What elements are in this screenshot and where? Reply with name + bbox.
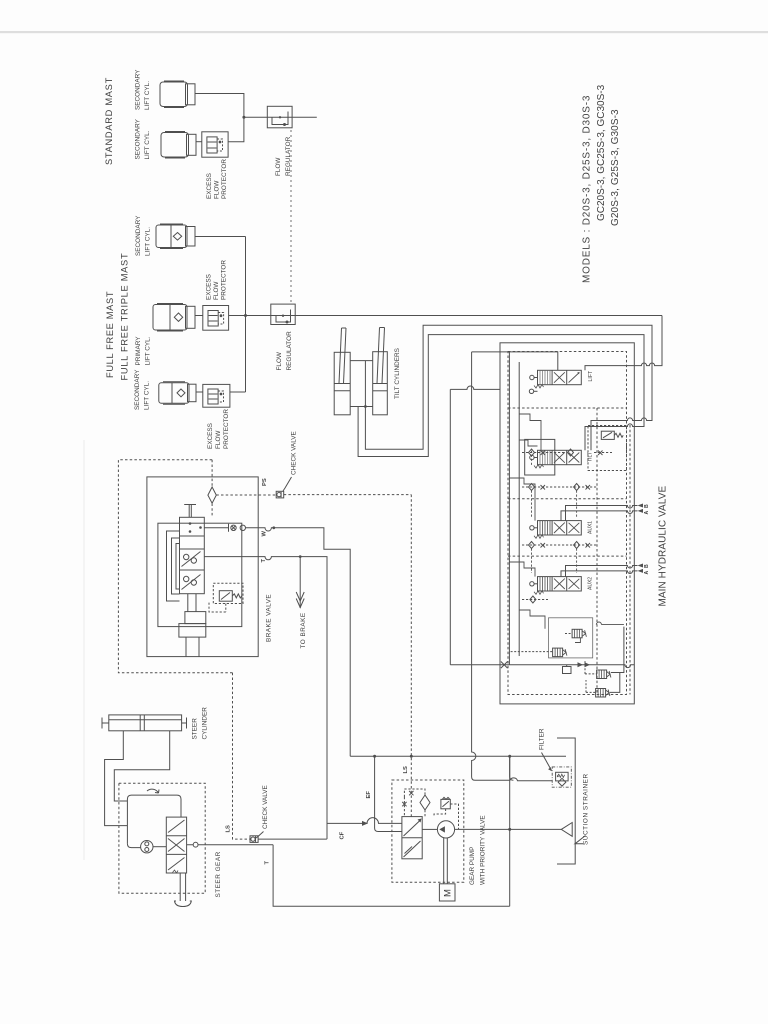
- wire vertical secondary/protector junction: [245, 237, 247, 393]
- svg-text:SUCTION STRAINER: SUCTION STRAINER: [583, 773, 590, 845]
- page scan edge band: [0, 31, 768, 33]
- svg-text:STEER: STEER: [192, 718, 199, 740]
- dashed option link flow regulators: [290, 130, 292, 303]
- node junction standard mast: [242, 116, 245, 119]
- priority valve: [402, 817, 422, 859]
- excess flow protector 3 box: [203, 384, 230, 407]
- svg-text:EXCESS: EXCESS: [206, 173, 213, 199]
- wire steer cylinder line a: [105, 731, 128, 826]
- svg-text:GEAR PUMP: GEAR PUMP: [469, 847, 476, 885]
- svg-text:A: A: [644, 511, 650, 515]
- junction cross mark: [501, 662, 508, 669]
- main valve P trunk: [508, 352, 510, 665]
- pump check diamond: [420, 795, 430, 810]
- svg-text:EXCESS: EXCESS: [206, 274, 213, 300]
- cylinder secondary lift cyl 1 (standard mast): [160, 81, 195, 108]
- brake pilot dashed enclosure: [118, 460, 232, 673]
- svg-text:LIFT CYL.: LIFT CYL.: [144, 81, 151, 110]
- svg-text:LIFT CYL.: LIFT CYL.: [144, 381, 151, 410]
- svg-text:PROTECTOR: PROTECTOR: [223, 409, 230, 449]
- labels A B upper: [644, 504, 650, 515]
- leader suction strainer: [575, 836, 586, 844]
- tilt section enclosure: [525, 439, 555, 475]
- tank bracket: [557, 738, 575, 864]
- leader filter: [542, 753, 552, 771]
- svg-text:SECONDARY: SECONDARY: [135, 215, 142, 256]
- brake T port line: [204, 557, 327, 840]
- wire P feed top: [472, 352, 558, 370]
- wire 3 tilt line b: [358, 335, 644, 457]
- cylinder secondary lift cyl (full free upper): [156, 224, 195, 249]
- svg-text:FLOW: FLOW: [276, 351, 283, 370]
- check symbol row 2: [529, 484, 591, 491]
- motor box M: [439, 884, 455, 901]
- cylinder secondary lift cyl (full free lower): [159, 382, 196, 405]
- svg-text:BRAKE VALVE: BRAKE VALVE: [266, 594, 273, 642]
- svg-text:A: A: [644, 571, 650, 575]
- check valve (steer): [250, 836, 258, 843]
- relief valve d: [586, 673, 620, 698]
- label secondary lift cyl (full free lower): [134, 369, 151, 410]
- spool feed steps: [509, 414, 545, 629]
- PS pilot dashed line: [216, 494, 276, 496]
- label excess flow protector 3: [207, 409, 230, 449]
- pump shaft: [444, 838, 448, 884]
- spool valve AUX2: [530, 577, 582, 595]
- node tilt riser junction: [364, 405, 367, 408]
- svg-text:LIFT: LIFT: [588, 370, 594, 381]
- dashed separator 1: [508, 407, 627, 409]
- wire cyl1 to junction: [195, 94, 244, 142]
- label primary lift cyl: [135, 336, 152, 366]
- dashed vertical pilot b: [629, 425, 631, 695]
- svg-text:FLOW: FLOW: [214, 180, 221, 199]
- dashed vertical pilot a: [596, 408, 598, 695]
- svg-text:LS: LS: [403, 766, 409, 774]
- svg-text:AUX1: AUX1: [588, 521, 594, 534]
- wire 2 tilt line a: [365, 325, 652, 450]
- svg-text:B: B: [644, 564, 650, 568]
- svg-text:GC20S-3, GC25S-3, GC30S-3: GC20S-3, GC25S-3, GC30S-3: [596, 84, 607, 221]
- svg-text:LS: LS: [226, 825, 232, 833]
- pilot dashes priority: [404, 789, 458, 829]
- wire left vertical b (EF return): [472, 352, 553, 781]
- CF arrow: [362, 821, 368, 826]
- bottom distribution line: [450, 662, 634, 673]
- label gear pump: [469, 815, 487, 885]
- check symbol row 1: [529, 449, 603, 456]
- steer rotary arrow: [147, 789, 159, 793]
- steer gear dashed box: [119, 783, 205, 893]
- check symbol row 4: [530, 596, 536, 603]
- steer T line: [187, 842, 510, 906]
- label excess flow protector 1: [206, 159, 228, 199]
- label secondary lift cyl 1: [135, 69, 152, 110]
- excess flow protector 1 box: [202, 132, 228, 157]
- dashed row lines check symbols: [522, 449, 612, 600]
- flow regulator 2 box: [271, 304, 295, 324]
- orifice x marks: [402, 791, 413, 806]
- svg-text:T: T: [264, 861, 270, 865]
- brake master spool: [180, 517, 205, 593]
- svg-text:G20S-3, G25S-3, G30S-3: G20S-3, G25S-3, G30S-3: [610, 109, 621, 226]
- steer gear loop: [127, 795, 181, 848]
- label secondary lift cyl (full free upper): [135, 215, 152, 256]
- wire steer cylinder line b: [114, 731, 169, 801]
- svg-text:AUX2: AUX2: [588, 577, 594, 590]
- brake valve box: [147, 477, 258, 657]
- wire secondary upper to junction: [195, 236, 246, 238]
- steering wheel: [173, 870, 192, 907]
- wire tilt link bottom: [350, 406, 373, 408]
- brake pedal: [184, 504, 196, 506]
- svg-text:EF: EF: [366, 791, 372, 799]
- flow regulator 1 box: [267, 106, 292, 128]
- svg-text:SECONDARY: SECONDARY: [135, 118, 142, 159]
- main valve T trunk: [518, 362, 520, 656]
- svg-text:FLOW: FLOW: [213, 281, 220, 300]
- svg-text:FULL FREE TRIPLE MAST: FULL FREE TRIPLE MAST: [120, 253, 130, 381]
- wire tilt link vertical: [364, 361, 366, 407]
- node EF drop: [373, 755, 376, 758]
- brake relief valve: [209, 583, 243, 612]
- check symbol row 3: [529, 542, 591, 549]
- svg-text:CF: CF: [340, 831, 346, 839]
- pump suction line: [455, 828, 562, 830]
- label steer cylinder: [192, 707, 209, 740]
- port lines A B upper: [561, 504, 643, 521]
- port lines A B lower: [561, 564, 643, 577]
- relief valve a: [565, 629, 586, 642]
- wire left loop lift: [450, 386, 500, 389]
- models text: [582, 84, 622, 283]
- wire tilt link top: [350, 360, 373, 362]
- relief enclosure box: [549, 618, 593, 658]
- wire cyl2 to protector: [196, 141, 202, 143]
- EF return line: [350, 755, 566, 757]
- steer LS dashed line: [233, 673, 251, 839]
- svg-text:M: M: [443, 889, 454, 897]
- svg-text:EXCESS: EXCESS: [207, 423, 214, 449]
- steer spool: [166, 817, 186, 873]
- tilt cylinder B: [373, 328, 388, 415]
- svg-text:CHECK VALVE: CHECK VALVE: [262, 785, 269, 829]
- gear pump circle: [437, 821, 454, 838]
- steer priority feed line: [258, 838, 327, 840]
- wire 1 lift line right loop: [585, 316, 662, 371]
- wire P drop: [509, 756, 511, 906]
- leader check valve steer: [256, 832, 264, 839]
- main valve inner dashed box: [508, 352, 627, 695]
- svg-text:FLOW: FLOW: [275, 157, 282, 176]
- svg-text:MAIN HYDRAULIC VALVE: MAIN HYDRAULIC VALVE: [658, 486, 669, 607]
- label flow regulator 1: [275, 136, 292, 176]
- PS dashed line to LS drop: [284, 494, 412, 496]
- label flow regulator 2: [276, 331, 293, 371]
- svg-text:TILT CYLINDERS: TILT CYLINDERS: [394, 348, 401, 399]
- spool valve TILT: [530, 450, 582, 468]
- pump relief valve: [441, 797, 450, 808]
- spool valve LIFT: [529, 370, 581, 393]
- tilt cylinder A: [334, 328, 350, 415]
- svg-text:FILTER: FILTER: [539, 728, 546, 750]
- svg-text:SECONDARY: SECONDARY: [134, 369, 141, 410]
- svg-text:SECONDARY: SECONDARY: [135, 69, 142, 110]
- wire left vertical a: [449, 389, 451, 664]
- excess flow protector 2 box: [203, 306, 229, 331]
- svg-text:FLOW: FLOW: [215, 430, 222, 449]
- svg-text:STEER GEAR: STEER GEAR: [215, 851, 222, 897]
- svg-text:PRIMARY: PRIMARY: [135, 336, 142, 366]
- cylinder secondary lift cyl 2 (standard mast): [161, 132, 196, 159]
- pilot check diamond: [208, 487, 216, 503]
- suction strainer: [561, 823, 572, 837]
- wire primary cyl through protector to main line: [195, 315, 203, 317]
- main valve outer box: [500, 343, 634, 704]
- gear pump dashed box: [392, 780, 464, 882]
- wire protector 3 to junction vertical: [230, 391, 246, 393]
- svg-text:PROTECTOR: PROTECTOR: [221, 159, 228, 199]
- pump outlet line: [422, 828, 437, 830]
- section title FULL FREE MAST / FULL FREE TRIPLE MAST: [105, 253, 130, 381]
- brake valve inner box: [158, 523, 242, 626]
- cylinder primary lift cyl: [153, 304, 195, 332]
- CF line to priority valve: [327, 818, 402, 824]
- svg-text:LIFT CYL.: LIFT CYL.: [145, 336, 152, 365]
- relief valve b (main relief): [511, 648, 567, 657]
- spool valve AUX1: [530, 521, 582, 539]
- svg-text:LIFT CYL.: LIFT CYL.: [145, 227, 152, 256]
- node pump suction: [508, 828, 511, 831]
- wire EF connector valve: [510, 756, 514, 780]
- relief valve c: [585, 622, 624, 679]
- node junction full free: [244, 314, 247, 317]
- node EF p: [508, 755, 511, 758]
- svg-text:PS: PS: [262, 478, 268, 486]
- label secondary lift cyl 2: [135, 118, 152, 159]
- wire 1 lift line: [229, 315, 662, 317]
- svg-text:W: W: [261, 531, 267, 537]
- tilt relief valve: [588, 426, 627, 471]
- wire junction to flow regulator 1: [244, 116, 317, 118]
- svg-text:FULL FREE MAST: FULL FREE MAST: [105, 291, 115, 378]
- svg-text:LIFT CYL.: LIFT CYL.: [144, 130, 151, 159]
- LS dashed drop to pump: [410, 495, 412, 817]
- dashed separator 2: [508, 498, 627, 500]
- leader check valve: [283, 477, 292, 491]
- steer cylinder: [102, 715, 187, 731]
- wire EF drop to priority: [375, 756, 402, 831]
- label excess flow protector 2: [206, 260, 228, 300]
- svg-text:T: T: [261, 559, 267, 563]
- page scan left edge: [84, 440, 85, 860]
- svg-text:TO BRAKE: TO BRAKE: [300, 612, 307, 648]
- node T branch: [299, 555, 302, 558]
- check valve (brake pilot): [276, 491, 284, 498]
- steer gerotor: [141, 841, 153, 853]
- brake W port line: [204, 524, 350, 757]
- node LS EF crossing: [410, 755, 413, 758]
- brake booster: [179, 594, 206, 657]
- wire secondary lower to protector 3: [196, 391, 203, 393]
- svg-text:CYLINDER: CYLINDER: [202, 707, 209, 740]
- svg-text:TILT: TILT: [588, 452, 594, 462]
- svg-text:STANDARD MAST: STANDARD MAST: [104, 77, 114, 165]
- labels A B lower: [644, 564, 650, 575]
- svg-text:REGULATOR: REGULATOR: [286, 331, 293, 371]
- svg-text:CHECK VALVE: CHECK VALVE: [291, 431, 298, 475]
- dashed separator 3: [508, 555, 627, 557]
- filter box: [552, 767, 571, 787]
- svg-text:B: B: [644, 504, 650, 508]
- brake valve left loop wires: [167, 531, 180, 601]
- svg-text:PROTECTOR: PROTECTOR: [221, 260, 228, 300]
- to brake arrow: [296, 557, 304, 608]
- svg-text:MODELS : D20S-3, D25S-3, D30: MODELS : D20S-3, D25S-3, D30S-3: [582, 95, 593, 283]
- svg-text:WITH PRIORITY VALVE: WITH PRIORITY VALVE: [480, 815, 487, 885]
